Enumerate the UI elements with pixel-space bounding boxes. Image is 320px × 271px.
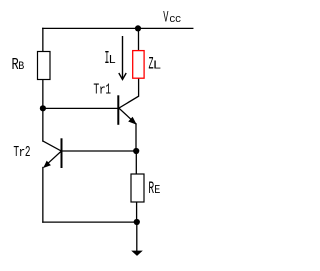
svg-text:c: c bbox=[169, 14, 175, 26]
svg-text:1: 1 bbox=[105, 82, 111, 99]
svg-text:E: E bbox=[154, 184, 160, 197]
svg-text:L: L bbox=[109, 53, 116, 67]
svg-text:c: c bbox=[175, 14, 181, 26]
svg-text:V: V bbox=[163, 8, 168, 27]
svg-text:r: r bbox=[19, 145, 26, 160]
svg-text:R: R bbox=[148, 179, 154, 199]
svg-text:R: R bbox=[11, 56, 19, 74]
svg-text:T: T bbox=[93, 80, 99, 98]
svg-text:r: r bbox=[99, 83, 106, 98]
svg-text:L: L bbox=[153, 58, 162, 72]
svg-text:B: B bbox=[18, 61, 24, 73]
svg-text:2: 2 bbox=[25, 144, 31, 161]
